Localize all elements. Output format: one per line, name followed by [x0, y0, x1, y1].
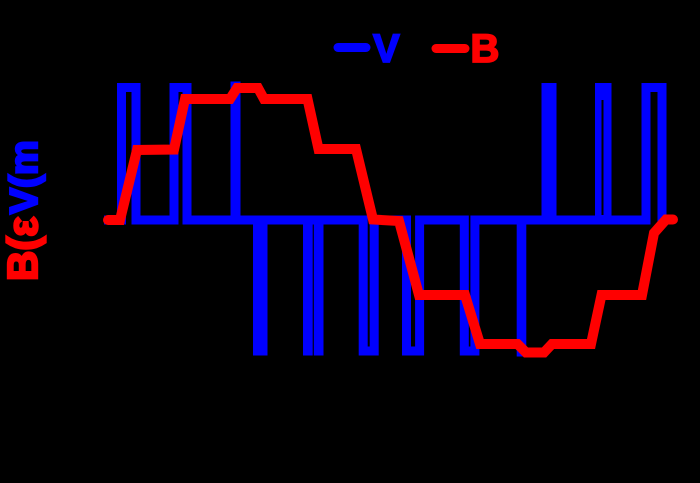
svg-text:V(m: V(m — [3, 140, 46, 214]
svg-text:B: B — [471, 27, 500, 71]
svg-text:B(ε: B(ε — [0, 217, 46, 281]
legend: blue line sample — [338, 43, 366, 52]
blue V square-wave trace — [104, 86, 667, 352]
svg-text:V: V — [373, 27, 400, 71]
thin slit in UP2 pulse — [602, 100, 604, 215]
legend: red line sample — [436, 44, 465, 53]
red B staircase trace — [108, 88, 673, 353]
